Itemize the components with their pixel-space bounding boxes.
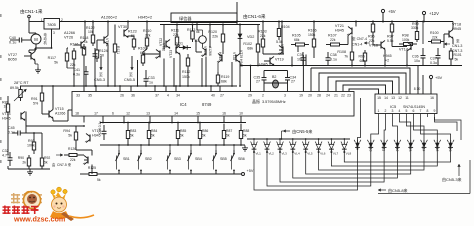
wire VT23 emitter drop (179, 55, 181, 87)
svg-text:68k: 68k (221, 80, 227, 84)
terminal +5V top (381, 9, 384, 12)
svg-text:R103: R103 (258, 30, 267, 34)
svg-text:SB6: SB6 (238, 157, 245, 161)
svg-text:21: 21 (334, 94, 338, 98)
transistor VT18 (448, 31, 450, 38)
svg-text:晶振: 晶振 (252, 98, 260, 104)
svg-text:VT26: VT26 (64, 36, 73, 40)
svg-text:R97: R97 (387, 35, 394, 39)
transistor VT24 (205, 49, 207, 56)
svg-text:5%: 5% (33, 102, 39, 106)
svg-text:27: 27 (256, 80, 260, 84)
resistor R111 (176, 34, 178, 37)
svg-text:89.5k: 89.5k (10, 86, 19, 90)
wire mid rail above IC4 (20, 85, 237, 87)
svg-text:CN1-4: CN1-4 (352, 43, 362, 47)
resistor R107 (326, 44, 331, 46)
transistor VT13 (89, 135, 91, 142)
wire VT24 emitter drop (205, 57, 207, 87)
svg-text:R116: R116 (70, 43, 78, 47)
wire 7805 pin3 (51, 29, 53, 48)
svg-text:8 10: 8 10 (414, 87, 421, 91)
capacitor C45 (12, 132, 18, 134)
resistor R110 (146, 35, 148, 38)
wire loop C (336, 81, 393, 94)
svg-text:VL9: VL9 (355, 144, 359, 150)
svg-text:C40: C40 (9, 36, 16, 40)
LED VL16 (450, 140, 452, 150)
wire from CN1-6 vertical (236, 2, 238, 25)
svg-text:R113: R113 (187, 28, 195, 32)
svg-text:R83: R83 (130, 129, 136, 133)
svg-text:VT13: VT13 (92, 129, 101, 133)
svg-text:1: 1 (378, 109, 380, 113)
wire LED1-LED2 nest connectors (254, 150, 358, 190)
svg-text:16: 16 (222, 112, 226, 116)
svg-text:16: 16 (430, 96, 434, 100)
svg-text:H945: H945 (2, 117, 11, 121)
svg-text:22: 22 (341, 94, 345, 98)
svg-text:R123: R123 (128, 30, 137, 34)
svg-text:CN5-5: CN5-5 (124, 78, 135, 82)
svg-text:SB3: SB3 (174, 157, 181, 161)
resistor R108 (351, 48, 353, 52)
svg-text:VL14: VL14 (422, 144, 426, 152)
svg-text:3.579545MHz: 3.579545MHz (262, 100, 286, 104)
svg-text:VL5: VL5 (307, 152, 313, 156)
svg-text:VL10: VL10 (368, 144, 372, 152)
LED VL11 (383, 140, 385, 150)
svg-text:12: 12 (398, 96, 402, 100)
svg-text:27: 27 (220, 94, 224, 98)
svg-text:5k: 5k (455, 58, 459, 62)
LED VL7 (330, 139, 332, 143)
svg-text:28°C RT: 28°C RT (14, 81, 29, 85)
terminal CN1-1 (28, 15, 31, 18)
svg-text:17: 17 (94, 112, 98, 116)
svg-text:R112: R112 (182, 70, 190, 74)
resistor R89 (7, 100, 9, 104)
resistor R106 (313, 36, 315, 39)
svg-text:R108: R108 (337, 50, 346, 54)
svg-text:22k: 22k (432, 36, 438, 40)
wire bottom-left ground rail (8, 168, 50, 170)
wire motor (35, 33, 37, 34)
resistor R86 (199, 124, 201, 131)
LED VL9 (357, 140, 359, 150)
wire VT26 (84, 22, 86, 41)
wire column x137 (137, 60, 139, 86)
svg-text:10u: 10u (297, 58, 303, 62)
svg-text:H945: H945 (335, 29, 344, 33)
svg-text:+12V: +12V (429, 11, 439, 16)
svg-text:SB1: SB1 (123, 157, 130, 161)
svg-text:R95: R95 (359, 55, 365, 59)
wire vertical feed left of IC5 (358, 98, 361, 140)
svg-text:VL16: VL16 (448, 144, 452, 152)
svg-text:22k: 22k (369, 39, 375, 43)
label from CN5-5 (283, 130, 290, 132)
svg-text:2: 2 (61, 18, 63, 22)
svg-text:22k: 22k (70, 158, 76, 162)
svg-text:33: 33 (76, 94, 80, 98)
svg-text:VL2: VL2 (269, 152, 275, 156)
resistor R92 (41, 155, 43, 158)
svg-text:VT14: VT14 (2, 112, 11, 116)
svg-text:19: 19 (299, 94, 303, 98)
svg-text:R96: R96 (368, 35, 375, 39)
wire columns to mid rail (66, 64, 68, 68)
svg-text:R121: R121 (116, 46, 120, 54)
svg-text:VT22: VT22 (159, 38, 163, 46)
diode VD2 (239, 30, 241, 42)
LED VL4 (292, 139, 294, 143)
svg-text:VL4: VL4 (294, 152, 300, 156)
LED VL2 (266, 139, 268, 143)
svg-text:9: 9 (434, 109, 436, 113)
wire CN5-8 line (378, 193, 470, 195)
label from CN5-3 (458, 164, 460, 176)
svg-text:11: 11 (405, 96, 409, 100)
svg-text:R111: R111 (171, 29, 179, 33)
transistor VT32 (159, 51, 161, 58)
resistor R95 (364, 50, 366, 53)
svg-text:CN7-5 来: CN7-5 来 (57, 163, 72, 167)
ground keypad (244, 146, 246, 148)
transistor VT26 (80, 42, 82, 49)
capacitor C46 (103, 125, 105, 131)
svg-text:VD2: VD2 (247, 35, 254, 39)
svg-text:3: 3 (392, 109, 394, 113)
svg-text:150k: 150k (182, 75, 190, 79)
transistor VT28 (221, 55, 223, 62)
resistor R83 (127, 124, 129, 131)
wire VT14 column (83, 123, 85, 131)
svg-text:5k: 5k (44, 161, 48, 165)
crystal circuit: capacitor C35 (263, 71, 265, 78)
resistor R122 (92, 32, 94, 35)
svg-text:VT21: VT21 (335, 24, 344, 28)
wire left mid rail stub (7, 96, 9, 100)
svg-text:22k: 22k (173, 33, 179, 37)
wire IC4 bottom stubs (83, 116, 85, 123)
svg-text:12: 12 (126, 112, 130, 116)
svg-text:5k: 5k (202, 134, 206, 138)
svg-text:绿信器: 绿信器 (179, 15, 192, 22)
svg-text:VL3: VL3 (282, 152, 288, 156)
svg-text:R119: R119 (221, 75, 229, 79)
svg-text:22k: 22k (330, 38, 336, 42)
resistor R112 (187, 54, 189, 58)
wire IC4 right pins up (302, 55, 304, 92)
arrow to CN5-3 (100, 56, 102, 70)
svg-text:SB4: SB4 (195, 157, 202, 161)
wire R125 left (80, 173, 86, 175)
watermark mascot (51, 190, 55, 194)
LED VL6 (318, 139, 320, 143)
svg-text:37: 37 (155, 94, 159, 98)
wire IC5 pin fan (378, 114, 380, 118)
svg-text:R90: R90 (18, 156, 24, 160)
svg-text:R86: R86 (202, 129, 208, 133)
svg-text:10u: 10u (414, 59, 420, 63)
svg-text:22k: 22k (145, 34, 151, 38)
resistor R118 (83, 44, 85, 47)
buzzer B1 (199, 36, 207, 44)
svg-text:29: 29 (248, 94, 252, 98)
LED VL3 (279, 139, 281, 143)
resistor R100 (428, 41, 432, 43)
svg-text:A1266×2: A1266×2 (101, 15, 118, 20)
svg-text:VL13: VL13 (408, 144, 412, 152)
svg-text:5k: 5k (97, 178, 101, 182)
resistor R124 (96, 46, 98, 50)
svg-text:至: 至 (456, 39, 460, 43)
regulator 7805 (44, 19, 60, 30)
svg-text:18: 18 (75, 112, 79, 116)
wire top rail (29, 21, 44, 23)
svg-text:由CN1-1来: 由CN1-1来 (20, 8, 43, 15)
capacitor C36 (422, 48, 424, 56)
transistor VT12 (87, 157, 89, 164)
svg-text:7k: 7k (344, 55, 348, 59)
watermark text weiku (3, 206, 11, 215)
transistor VT31 (103, 37, 105, 44)
wire VT29 emitter drop (239, 63, 241, 87)
svg-text:VL1: VL1 (256, 152, 262, 156)
svg-text:CN5-3: CN5-3 (94, 78, 105, 82)
LED VL1 (253, 139, 255, 143)
svg-text:VT30: VT30 (118, 25, 127, 29)
svg-text:VT24: VT24 (203, 46, 207, 54)
svg-text:×2: ×2 (385, 59, 389, 63)
svg-text:R105: R105 (292, 34, 301, 38)
switch SB5 (215, 150, 217, 153)
svg-text:C41: C41 (73, 68, 80, 72)
switch SB6 (233, 150, 235, 153)
svg-text:H945: H945 (92, 134, 101, 138)
svg-text:8749: 8749 (202, 102, 212, 107)
svg-text:SB5: SB5 (220, 157, 227, 161)
resistor R121 (114, 40, 116, 44)
wire VT27 emitter to ground (34, 61, 36, 65)
svg-text:IC4: IC4 (180, 102, 187, 107)
svg-text:2k: 2k (22, 161, 26, 165)
svg-text:至: 至 (129, 73, 133, 77)
watermark badge (24, 192, 41, 209)
svg-text:VT27: VT27 (8, 53, 17, 57)
transistor VT21 (351, 28, 353, 35)
svg-text:100k: 100k (27, 144, 35, 148)
transistor VT15 (48, 111, 50, 118)
svg-text:22k: 22k (212, 35, 218, 39)
wire keypad rail A (100, 122, 246, 124)
svg-text:1u: 1u (149, 81, 153, 85)
svg-text:B050: B050 (8, 58, 17, 62)
resistor R116 (73, 48, 75, 51)
resistor R119 (217, 72, 219, 75)
svg-text:5k: 5k (130, 134, 134, 138)
svg-text:4: 4 (167, 94, 169, 98)
svg-text:5.5k: 5.5k (387, 39, 394, 43)
resistor R84 (148, 124, 150, 131)
wire to IC pin (52, 119, 54, 122)
svg-text:R85: R85 (180, 129, 186, 133)
svg-text:6: 6 (413, 109, 415, 113)
svg-text:R92: R92 (44, 156, 50, 160)
transistor VT27 (30, 53, 32, 60)
diode VD1 (179, 47, 191, 49)
ground bottom-left (29, 170, 31, 172)
svg-text:VT17: VT17 (399, 48, 408, 52)
svg-text:R93: R93 (28, 139, 35, 143)
svg-text:VT23: VT23 (169, 50, 173, 58)
svg-text:+5V: +5V (435, 75, 443, 80)
svg-text:68k: 68k (360, 59, 366, 63)
svg-text:R84: R84 (151, 129, 157, 133)
wire VT14 links (7, 114, 9, 155)
svg-text:由CN5-3来: 由CN5-3来 (442, 176, 462, 182)
svg-text:26: 26 (120, 94, 124, 98)
transistor VT23 (175, 47, 177, 54)
svg-text:4: 4 (399, 109, 401, 113)
svg-text:+5V: +5V (388, 9, 396, 14)
svg-text:22k: 22k (70, 63, 76, 67)
svg-text:VL12: VL12 (395, 144, 399, 152)
svg-text:330k: 330k (411, 26, 419, 30)
LED VL8 (343, 139, 345, 143)
wire keypad rail C (100, 173, 241, 175)
svg-text:40: 40 (211, 94, 215, 98)
svg-text:5k: 5k (54, 61, 58, 65)
wire right columns (384, 50, 386, 66)
svg-text:14: 14 (384, 96, 388, 100)
svg-text:7: 7 (420, 109, 422, 113)
svg-text:B1: B1 (195, 39, 199, 43)
capacitor C31 (94, 48, 96, 54)
svg-text:5k: 5k (180, 134, 184, 138)
svg-text:7805: 7805 (47, 22, 56, 27)
capacitor C39 (302, 52, 304, 58)
svg-text:2: 2 (385, 109, 387, 113)
svg-text:C33: C33 (148, 76, 155, 80)
resistor R125 (86, 173, 89, 175)
svg-text:+5V: +5V (247, 169, 254, 173)
scan edge marks (0, 14, 2, 17)
resistor R98 (399, 43, 404, 45)
wire IC5 vcc (430, 79, 432, 94)
svg-text:100k: 100k (402, 38, 410, 42)
capacitor C37 (437, 48, 439, 56)
svg-text:A1266: A1266 (64, 31, 75, 35)
wire mid rail right (240, 65, 462, 67)
wire loop F outer (311, 68, 410, 94)
transistor VT17 (410, 43, 412, 50)
resistor R105 (291, 44, 296, 46)
transistor VT22 (165, 41, 167, 48)
transistor VT30 (123, 30, 125, 37)
resistor R113 (192, 28, 194, 31)
terminal +5V IC5 (429, 75, 432, 78)
wire R102 drop (257, 56, 259, 66)
svg-text:14: 14 (174, 112, 178, 116)
capacitor C34 (287, 71, 289, 78)
svg-text:VT15: VT15 (55, 107, 64, 111)
svg-text:R124: R124 (99, 49, 108, 53)
wire IC4 top pin stubs (83, 86, 85, 92)
svg-text:VT28: VT28 (232, 52, 236, 60)
watermark tan text (11, 193, 20, 204)
svg-text:由CN5-8来: 由CN5-8来 (388, 187, 408, 193)
svg-text:由CN5-5来: 由CN5-5来 (292, 128, 313, 135)
resistor R93 (33, 138, 35, 142)
wire loop B (328, 77, 399, 94)
capacitor C33 (145, 74, 147, 79)
svg-text:8: 8 (427, 109, 429, 113)
crystal B2 (273, 80, 279, 88)
wire IC4 pin29 column (250, 66, 252, 92)
svg-text:M: M (34, 37, 38, 42)
switch SB2 (140, 150, 142, 153)
svg-text:24: 24 (326, 94, 330, 98)
capacitor C41 (85, 66, 87, 72)
svg-text:C36: C36 (412, 55, 419, 59)
resistor R102 (257, 40, 259, 44)
svg-text:36: 36 (131, 94, 135, 98)
svg-text:R107: R107 (328, 34, 337, 38)
wire columns right (281, 22, 283, 48)
svg-text:0.1u: 0.1u (8, 131, 15, 135)
svg-text:10: 10 (239, 112, 243, 116)
svg-text:R91: R91 (31, 97, 38, 101)
svg-text:0.3u: 0.3u (73, 73, 80, 77)
svg-text:VL11: VL11 (382, 144, 386, 151)
wire column x174 (173, 58, 175, 86)
svg-text:VT19: VT19 (275, 58, 284, 62)
svg-text:由: 由 (52, 162, 55, 167)
svg-text:由CN1-6来: 由CN1-6来 (243, 13, 266, 20)
svg-text:B2: B2 (272, 75, 276, 79)
svg-text:www.dzsc.com: www.dzsc.com (13, 215, 65, 224)
svg-text:13: 13 (146, 112, 150, 116)
svg-text:2: 2 (262, 94, 264, 98)
svg-text:SB2: SB2 (145, 157, 152, 161)
svg-text:R88: R88 (243, 129, 249, 133)
resistor R99 (416, 29, 418, 32)
svg-text:R100: R100 (430, 31, 439, 35)
resistor R104 (278, 25, 280, 29)
transistor VT14 (20, 113, 22, 120)
LED VL10 (370, 140, 372, 150)
svg-text:C45: C45 (8, 126, 15, 130)
resistor R85 (177, 124, 179, 131)
wire loop A (319, 73, 406, 94)
svg-text:5k: 5k (243, 134, 247, 138)
wire +5V stub (382, 13, 384, 22)
svg-text:0.3u: 0.3u (430, 61, 437, 65)
svg-text:5k: 5k (68, 134, 72, 138)
svg-text:VL15: VL15 (435, 144, 439, 152)
svg-text:23: 23 (347, 94, 351, 98)
wire LED rail (247, 138, 350, 140)
svg-text:R102: R102 (243, 42, 252, 46)
svg-text:6: 6 (112, 112, 114, 116)
wire IC5 feed (417, 66, 419, 95)
svg-text:VL6: VL6 (320, 152, 326, 156)
svg-text:68k: 68k (247, 47, 253, 51)
capacitor C38 (327, 52, 329, 58)
svg-text:15: 15 (377, 96, 381, 100)
